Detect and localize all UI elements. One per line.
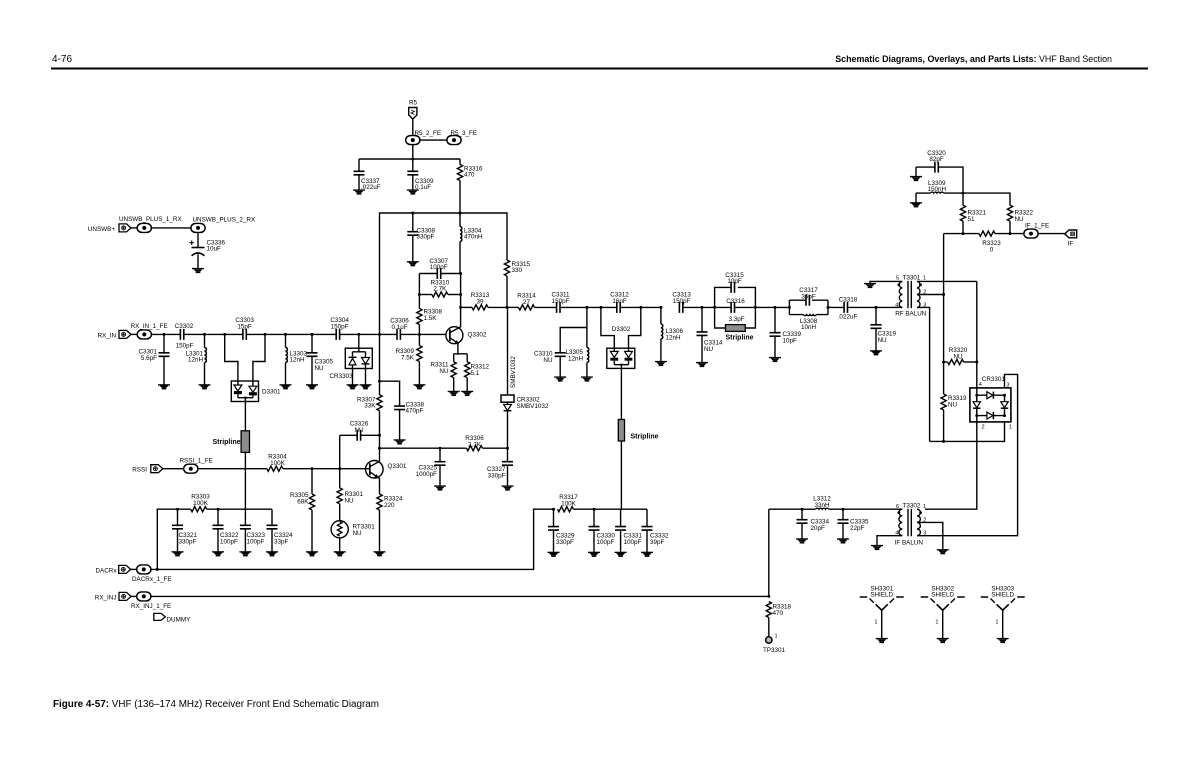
svg-text:.022uF: .022uF (838, 314, 858, 321)
ground (554, 376, 566, 381)
shield SH3301 (860, 586, 904, 644)
ground (548, 552, 560, 557)
wire D3302 bracket (601, 307, 641, 348)
wire DACRx riser (768, 509, 770, 596)
svg-text:NU: NU (543, 357, 553, 364)
svg-text:0.1uF: 0.1uF (391, 324, 407, 331)
svg-text:39: 39 (476, 299, 484, 306)
svg-text:DUMMY: DUMMY (167, 617, 192, 624)
svg-text:1: 1 (874, 620, 877, 626)
svg-text:RSSI: RSSI (132, 467, 147, 474)
wire emitter (378, 477, 380, 494)
svg-text:36pF: 36pF (801, 294, 816, 301)
wire main RX line (152, 333, 380, 335)
svg-text:220: 220 (384, 502, 395, 509)
ground (407, 261, 419, 266)
svg-text:NU: NU (948, 402, 958, 409)
ground (434, 485, 446, 490)
svg-text:1: 1 (995, 620, 998, 626)
svg-text:Q3302: Q3302 (468, 332, 487, 339)
svg-text:100pF: 100pF (430, 264, 448, 271)
wire DACRx rail (151, 509, 554, 569)
pin3 lead (917, 535, 925, 537)
core (908, 281, 911, 308)
ground (615, 552, 627, 557)
ground (910, 176, 922, 181)
svg-text:Stripline: Stripline (212, 439, 240, 446)
svg-text:D3301: D3301 (262, 389, 281, 396)
wire (359, 158, 460, 160)
svg-text:RX_IN_1_FE: RX_IN_1_FE (131, 323, 168, 330)
svg-text:DACRx_1_FE: DACRx_1_FE (132, 576, 172, 583)
svg-text:12nH: 12nH (666, 335, 682, 342)
wire box outline (715, 287, 756, 328)
svg-text:C3316: C3316 (726, 298, 745, 305)
svg-text:51: 51 (968, 216, 976, 223)
svg-text:5: 5 (896, 276, 899, 282)
svg-text:20pF: 20pF (811, 525, 826, 532)
svg-text:4-76: 4-76 (52, 54, 72, 65)
svg-text:UNSWB+: UNSWB+ (88, 226, 115, 233)
svg-text:RX_INJ_1_FE: RX_INJ_1_FE (131, 603, 171, 610)
svg-text:100K: 100K (561, 501, 577, 508)
svg-text:470pF: 470pF (406, 408, 424, 415)
wire (1038, 233, 1065, 235)
diode top (right) (987, 392, 993, 399)
winding dots (897, 511, 900, 514)
svg-text:NU: NU (704, 346, 714, 353)
svg-text:T3302: T3302 (903, 503, 921, 510)
wire collector (460, 307, 462, 327)
svg-text:470: 470 (464, 172, 475, 179)
svg-text:22pF: 22pF (850, 525, 865, 532)
svg-text:82pF: 82pF (929, 156, 944, 163)
svg-text:150nH: 150nH (928, 186, 947, 193)
ground (655, 361, 667, 366)
shield SH3302 (921, 586, 965, 644)
svg-text:0: 0 (990, 247, 994, 254)
diode bottom (right) (987, 412, 993, 419)
core (908, 509, 911, 537)
wire C3321 rail (157, 509, 272, 569)
ground (641, 552, 653, 557)
wire (460, 274, 462, 308)
wire IF row (944, 233, 979, 235)
svg-text:330: 330 (512, 267, 523, 274)
wire (620, 441, 622, 509)
svg-text:33pF: 33pF (274, 539, 289, 546)
svg-text:5.1: 5.1 (471, 370, 480, 377)
svg-text:RX_IN: RX_IN (97, 333, 116, 340)
svg-text:150pF: 150pF (673, 298, 691, 305)
svg-text:100pF: 100pF (597, 539, 615, 546)
svg-text:100pF: 100pF (247, 539, 265, 546)
svg-text:Stripline: Stripline (726, 335, 754, 342)
wire (412, 119, 414, 136)
svg-text:NU: NU (439, 368, 449, 375)
svg-text:100K: 100K (193, 500, 209, 507)
svg-text:10uF: 10uF (207, 246, 222, 253)
svg-text:33K: 33K (364, 403, 376, 410)
pin3 lead (917, 307, 930, 441)
wire (418, 274, 420, 295)
ground (796, 538, 808, 543)
ground (192, 268, 204, 273)
shield SH3303 (981, 586, 1025, 644)
svg-text:NU: NU (354, 427, 364, 434)
wire x943.6 vertical (IF to balun/R3319) (943, 234, 945, 394)
header rule (51, 68, 1148, 70)
ground (394, 439, 406, 444)
svg-text:6: 6 (896, 504, 899, 510)
svg-text:100K: 100K (270, 460, 286, 467)
svg-text:470: 470 (773, 610, 784, 617)
wire L3312 rail (769, 508, 903, 510)
wire vertical x379.5 (378, 333, 381, 336)
ground (353, 189, 365, 194)
svg-text:330pF: 330pF (179, 539, 197, 546)
svg-text:SHIELD: SHIELD (931, 592, 954, 599)
svg-text:12nH: 12nH (188, 357, 204, 364)
wire RX_INJ rail (151, 595, 769, 597)
ground (581, 376, 593, 381)
svg-text:1: 1 (775, 634, 778, 640)
ground (306, 551, 318, 556)
ground (870, 350, 882, 355)
svg-text:CR3303: CR3303 (330, 373, 354, 380)
wire bus y213 (380, 213, 508, 334)
svg-text:DACRx: DACRx (96, 568, 118, 575)
svg-text:330pF: 330pF (488, 473, 506, 480)
svg-text:Stripline: Stripline (631, 434, 659, 441)
ground (334, 551, 346, 556)
wire (244, 452, 246, 509)
svg-text:UNSWB_PLUS_1_RX: UNSWB_PLUS_1_RX (119, 216, 182, 223)
ground (407, 189, 419, 194)
pin1 lead (917, 280, 977, 282)
ground (158, 384, 170, 389)
ground (360, 384, 372, 389)
svg-text:IF BALUN: IF BALUN (895, 540, 924, 547)
ground (769, 357, 781, 362)
right winding (917, 281, 920, 307)
pin2 lead (917, 294, 944, 296)
svg-text:1: 1 (1009, 425, 1012, 431)
pin4 lead to ground (877, 536, 902, 546)
filter box C3315/C3316/stripline (713, 306, 716, 309)
wire (420, 139, 447, 141)
svg-text:5.6pF: 5.6pF (141, 355, 157, 362)
ground (461, 391, 473, 396)
svg-text:330pF: 330pF (417, 234, 435, 241)
wire (131, 227, 137, 229)
svg-text:3.3pF: 3.3pF (728, 316, 744, 323)
svg-text:150pF: 150pF (176, 343, 194, 350)
svg-text:NU: NU (345, 498, 355, 505)
svg-text:CR3301: CR3301 (982, 376, 1006, 383)
ring (977, 395, 1005, 415)
wire tank C3317/L3308 (755, 300, 844, 314)
diode right (down) (1001, 402, 1008, 408)
svg-text:39pF: 39pF (650, 539, 665, 546)
ground (280, 384, 292, 389)
ground (239, 551, 251, 556)
svg-text:SHIELD: SHIELD (870, 592, 893, 599)
svg-text:Q3301: Q3301 (388, 463, 407, 470)
ground (910, 202, 922, 207)
svg-text:NU: NU (1015, 216, 1025, 223)
svg-text:330pF: 330pF (556, 539, 574, 546)
svg-text:D3302: D3302 (612, 326, 631, 333)
right winding (917, 509, 920, 535)
ground (172, 551, 184, 556)
svg-text:2: 2 (982, 425, 985, 431)
ground (374, 551, 386, 556)
svg-text:NU: NU (353, 530, 363, 537)
svg-text:12nH: 12nH (290, 357, 306, 364)
ground (448, 391, 460, 396)
svg-text:RX_INJ: RX_INJ (95, 595, 117, 602)
ground (588, 552, 600, 557)
ground (212, 551, 224, 556)
wire C3310/L3305 bracket (560, 307, 587, 352)
svg-text:68K: 68K (297, 499, 309, 506)
ground (837, 538, 849, 543)
svg-text:1: 1 (935, 620, 938, 626)
wire (152, 227, 191, 229)
wire emitter (454, 343, 468, 354)
ground (266, 551, 278, 556)
svg-text:12nH: 12nH (568, 356, 584, 363)
svg-text:1.5K: 1.5K (424, 315, 438, 322)
left winding (899, 509, 902, 535)
ground (502, 485, 514, 490)
winding dots (897, 283, 900, 286)
svg-text:100pF: 100pF (220, 539, 238, 546)
svg-text:SMBV1032: SMBV1032 (517, 403, 549, 410)
svg-text:SHIELD: SHIELD (991, 592, 1014, 599)
svg-text:10nH: 10nH (801, 324, 817, 331)
svg-text:NU: NU (315, 365, 325, 372)
pin4 lead (895, 306, 902, 308)
svg-text:R5: R5 (409, 100, 418, 107)
svg-text:100pF: 100pF (624, 539, 642, 546)
wire (197, 254, 199, 268)
wire collector (379, 448, 381, 461)
svg-text:470nH: 470nH (464, 234, 483, 241)
svg-text:7.5K: 7.5K (401, 355, 415, 362)
svg-text:UNSWB_PLUS_2_RX: UNSWB_PLUS_2_RX (193, 217, 256, 224)
wire D3301 bracket (225, 334, 265, 381)
svg-text:IF: IF (1068, 241, 1074, 248)
svg-text:RF BALUN: RF BALUN (895, 311, 927, 318)
wire (198, 468, 267, 470)
svg-text:TP3301: TP3301 (763, 647, 786, 654)
svg-text:SMBV1032: SMBV1032 (510, 356, 517, 388)
ground (199, 384, 211, 389)
ground (696, 362, 708, 367)
svg-text:Figure 4-57: VHF (136–174 MHz): Figure 4-57: VHF (136–174 MHz) Receiver … (53, 699, 379, 710)
wire (412, 145, 414, 159)
svg-text:NU: NU (878, 337, 888, 344)
svg-text:1: 1 (923, 504, 926, 510)
wire x976.8 vertical (T3301 pin1 down) (925, 281, 977, 509)
wire (244, 398, 246, 431)
svg-text:27: 27 (523, 299, 531, 306)
svg-text:15pF: 15pF (237, 324, 252, 331)
wire y441 rail (930, 422, 1005, 442)
svg-text:RSSI_1_FE: RSSI_1_FE (180, 458, 213, 465)
left winding (899, 281, 902, 307)
svg-text:Schematic Diagrams, Overlays,: Schematic Diagrams, Overlays, and Parts … (835, 54, 1112, 64)
pin2 lead to ground (917, 522, 943, 549)
svg-text:1000pF: 1000pF (416, 471, 438, 478)
wire (620, 365, 622, 420)
pin5 lead + ground (870, 281, 902, 283)
svg-text:T3301: T3301 (903, 275, 921, 282)
ground (347, 384, 359, 389)
diode left (down) (973, 402, 980, 408)
ground (306, 384, 318, 389)
svg-text:10pF: 10pF (783, 338, 798, 345)
svg-text:1: 1 (923, 276, 926, 282)
ground (413, 384, 425, 389)
wire (197, 232, 199, 247)
pin3 route to x1017.6 (925, 374, 1018, 535)
